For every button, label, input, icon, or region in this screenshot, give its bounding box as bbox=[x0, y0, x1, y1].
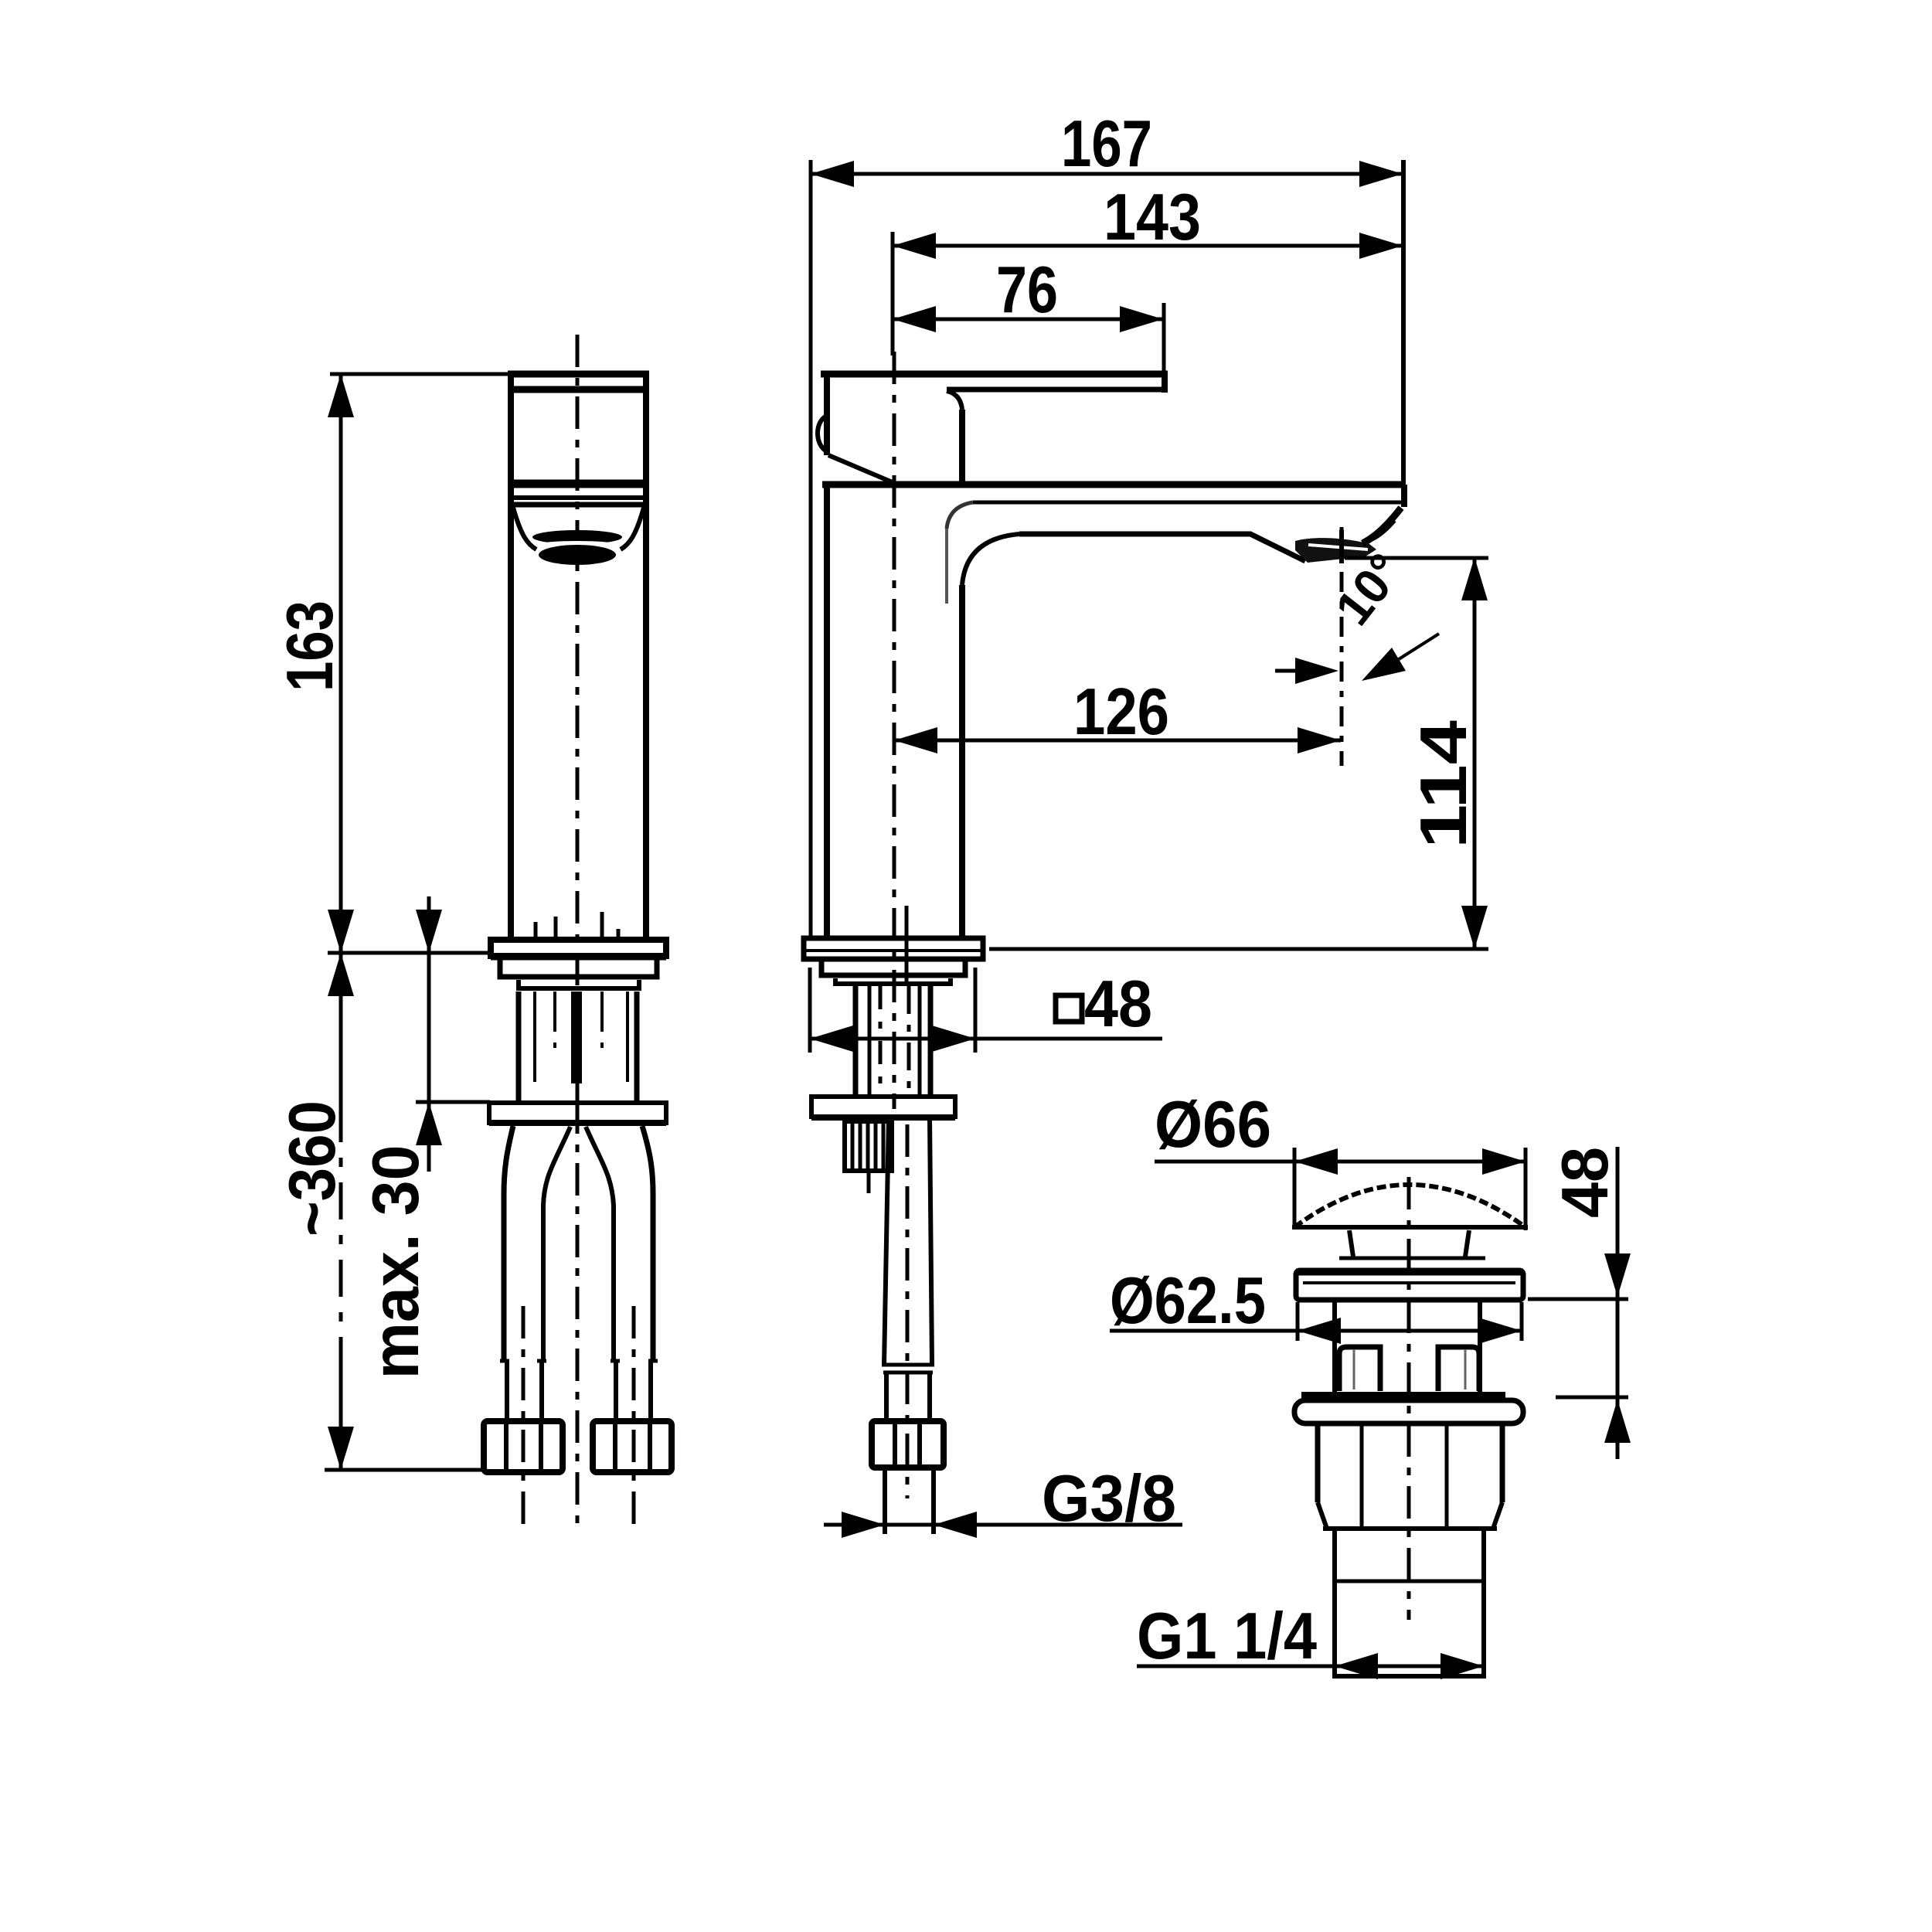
side view pipe nut facets bbox=[895, 1424, 920, 1464]
drain nut right edge bbox=[1500, 1423, 1505, 1502]
side view flange inner line bbox=[804, 949, 983, 952]
dim sq48 line bbox=[810, 1037, 1162, 1041]
drain cap rim left bbox=[1293, 1219, 1297, 1229]
side view deck top bbox=[822, 481, 1404, 488]
dim 163 top arrow bbox=[328, 374, 354, 417]
front view flange bottom band bbox=[491, 954, 666, 961]
drain valve centerline bbox=[1407, 1177, 1411, 1620]
front view flange tier3 bbox=[519, 980, 639, 988]
front view left hose shoulder ticks bbox=[500, 1359, 546, 1363]
dim O62.5 left arrow bbox=[1298, 1318, 1341, 1344]
side view shank line5 bbox=[918, 986, 922, 1097]
drain nut facet right bbox=[1445, 1425, 1449, 1526]
front view aerator white lens bbox=[543, 541, 612, 546]
drain tail right bbox=[1481, 1529, 1486, 1679]
drain lower flange bbox=[1294, 1400, 1523, 1423]
side view shank line2 bbox=[868, 986, 872, 1097]
drain waist left lug bbox=[1339, 1347, 1380, 1391]
front view right hose outer curve bbox=[642, 1126, 653, 1360]
side view body front edge bbox=[959, 585, 965, 938]
side view spout inner edge bbox=[945, 529, 948, 604]
svg-text:48: 48 bbox=[1549, 1147, 1622, 1218]
drain stem left bbox=[1349, 1230, 1353, 1257]
side view outlet aerator bbox=[1295, 538, 1376, 563]
dim 143 line bbox=[893, 244, 1403, 248]
drain nut chamfer right bbox=[1493, 1502, 1502, 1529]
dim 48 drain upper extension bbox=[1528, 1298, 1628, 1301]
drain upper flange inner line bbox=[1303, 1281, 1515, 1284]
svg-text:Ø66: Ø66 bbox=[1155, 1088, 1271, 1162]
drain waist left edge bbox=[1332, 1300, 1337, 1396]
front view body left edge bbox=[508, 374, 514, 941]
side view shank rod line bbox=[905, 906, 909, 986]
dim 167 left arrow bbox=[811, 161, 854, 187]
svg-text:G3/8: G3/8 bbox=[1042, 1462, 1176, 1536]
drain nut left edge bbox=[1315, 1423, 1321, 1502]
drain nut facet left bbox=[1360, 1425, 1364, 1526]
dim 143 left arrow bbox=[893, 233, 936, 259]
front view mounting stud left bbox=[553, 992, 556, 1048]
dim 10deg angled arrow bbox=[1362, 648, 1406, 681]
front view left hose centerline bbox=[522, 1306, 526, 1526]
svg-text:~360: ~360 bbox=[276, 1100, 349, 1236]
front view top edge bbox=[508, 371, 649, 378]
side view under nut hatched bbox=[845, 1121, 892, 1171]
front view right hose nut bbox=[593, 1421, 672, 1472]
front view washer bottom thick bbox=[489, 1120, 666, 1126]
svg-text:114: 114 bbox=[1407, 720, 1481, 849]
front view stud above flange right bbox=[600, 912, 604, 940]
svg-text:167: 167 bbox=[1061, 107, 1152, 181]
front view right hose nut facets bbox=[615, 1424, 650, 1469]
front view collar line 3 bbox=[511, 502, 646, 508]
drain waist right edge bbox=[1478, 1300, 1482, 1396]
dim 163/360 shared extension line bbox=[328, 951, 492, 955]
front view flange tier2 bbox=[500, 960, 657, 977]
front view collar line 2 bbox=[511, 495, 646, 500]
front view hose bore above flange right bbox=[617, 929, 621, 940]
dim O66 right extension bbox=[1524, 1148, 1528, 1230]
dim O62.5 left extension bbox=[1296, 1302, 1300, 1341]
dim G114 line between arrows bbox=[1335, 1665, 1484, 1668]
front view right hose centerline bbox=[632, 1306, 636, 1526]
dim O66 line bbox=[1155, 1160, 1526, 1164]
side view spout tip slope band bbox=[1362, 508, 1401, 543]
dim max30 bottom arrow bbox=[416, 1102, 442, 1145]
front view aerator cup left curve bbox=[513, 508, 536, 549]
dim O62.5 right arrow bbox=[1478, 1318, 1522, 1344]
dim 10deg arrow horizontal bbox=[1295, 658, 1338, 684]
side view tail pipe lower bbox=[886, 1372, 930, 1421]
drain stem base bbox=[1339, 1257, 1485, 1260]
drain tail relief line bbox=[1335, 1580, 1484, 1583]
dim sq48 square symbol bbox=[1056, 995, 1082, 1022]
side view spout underside bbox=[1019, 534, 1305, 561]
dim 163 extension top bbox=[330, 372, 510, 376]
dim max30 line bbox=[427, 896, 431, 1172]
dim max30 bottom extension bbox=[416, 1100, 490, 1104]
side view handle pivot bulge bbox=[818, 416, 827, 451]
dim 76 line bbox=[893, 318, 1163, 321]
dim G38 line bbox=[824, 1523, 1182, 1527]
dim 76 right extension line bbox=[1162, 303, 1166, 372]
side view tail pipe joint bbox=[882, 1365, 934, 1372]
dim 76 right arrow bbox=[1120, 306, 1163, 332]
dim O62.5 right extension bbox=[1520, 1302, 1524, 1341]
dim 126 right arrow bbox=[1298, 727, 1341, 753]
dim ~360 line middle dashed bbox=[339, 1105, 343, 1356]
front view pop-up rod bbox=[571, 992, 582, 1083]
side view pipe nut bbox=[872, 1421, 944, 1468]
dim G114 underline bbox=[1137, 1665, 1335, 1668]
side view flange tier2 bbox=[821, 959, 965, 975]
dim 126 line bbox=[894, 739, 1341, 743]
dim 143 left extension line bbox=[891, 232, 895, 355]
front view right hose inner curve bbox=[586, 1127, 614, 1360]
front view aerator dark ellipse bottom bbox=[539, 545, 616, 565]
outlet axis reference line bbox=[1340, 527, 1344, 766]
front view washer bbox=[489, 1103, 666, 1123]
side view handle underside diagonal bbox=[828, 455, 894, 483]
side view shank outer left bbox=[853, 986, 859, 1097]
dim 163 line bbox=[339, 374, 343, 953]
side view tail pipe upper bbox=[884, 1117, 932, 1365]
svg-text:143: 143 bbox=[1104, 181, 1201, 254]
side view spout top second line bbox=[973, 501, 1402, 505]
dim ~360 top arrow bbox=[328, 953, 354, 996]
drain cap dome bbox=[1294, 1185, 1526, 1227]
side view handle right end bbox=[1162, 372, 1168, 393]
dim 48 drain lower extension bbox=[1556, 1396, 1628, 1400]
dim 167 left extension line bbox=[809, 160, 813, 937]
side view shank line4 bbox=[907, 986, 911, 1097]
front view aerator dark ellipse top bbox=[532, 530, 622, 544]
dim max30 top arrow bbox=[416, 910, 442, 953]
dim sq48 right extension bbox=[974, 968, 978, 1053]
front view stud above flange left bbox=[554, 917, 558, 940]
drain upper flange bbox=[1296, 1270, 1523, 1300]
front view right hose shoulder ticks bbox=[611, 1359, 658, 1363]
dim 76 left arrow bbox=[893, 306, 936, 332]
dim O62.5 line bbox=[1110, 1329, 1522, 1333]
dim ~360 line lower bbox=[339, 1356, 343, 1470]
dim sq48 left arrow bbox=[810, 1026, 853, 1052]
drain waist lug inner lines bbox=[1354, 1350, 1465, 1389]
dim G114 left arrow bbox=[1335, 1653, 1378, 1679]
side view handle top bbox=[821, 371, 1168, 378]
side view handle underside bbox=[947, 387, 1165, 393]
side view stud tail bbox=[867, 1171, 871, 1193]
side view flange bbox=[804, 938, 983, 959]
front view body right edge bbox=[643, 374, 649, 941]
front view mounting stud right bbox=[600, 992, 604, 1048]
drain nut bottom bbox=[1323, 1526, 1497, 1531]
front view left hose inner curve bbox=[543, 1127, 570, 1360]
front view hose nipple right inner bbox=[626, 992, 629, 1082]
svg-text:G1 1/4: G1 1/4 bbox=[1137, 1600, 1317, 1673]
front view top cap line bbox=[511, 386, 646, 393]
side view shank outer right bbox=[928, 986, 934, 1097]
dim 167 right arrow bbox=[1359, 161, 1403, 187]
front view hose bore above flange left bbox=[534, 922, 538, 940]
side view handle neck front bbox=[959, 410, 965, 483]
front view right hose collar bbox=[616, 1361, 651, 1421]
svg-text:126: 126 bbox=[1073, 675, 1169, 749]
drain cap bottom bbox=[1292, 1225, 1528, 1230]
dim ~360 bottom extension bbox=[325, 1468, 484, 1472]
dim sq48 right arrow bbox=[932, 1026, 975, 1052]
dim ~360 line upper bbox=[339, 953, 343, 1105]
drain nut chamfer left bbox=[1318, 1502, 1327, 1529]
front view left hose nut bbox=[484, 1421, 563, 1472]
front view left hose nut facets bbox=[506, 1424, 541, 1469]
svg-text:163: 163 bbox=[274, 600, 347, 692]
drain cap rim right bbox=[1524, 1219, 1528, 1229]
dim sq48 left extension bbox=[808, 968, 812, 1053]
side view centerline upper bbox=[893, 352, 896, 1109]
dim 126 left arrow bbox=[894, 727, 937, 753]
dim 48 drain bottom arrow bbox=[1604, 1400, 1631, 1443]
dim G114 right arrow bbox=[1440, 1653, 1484, 1679]
side view spout underside left arc bbox=[962, 534, 1019, 585]
dim O66 right arrow bbox=[1482, 1148, 1526, 1175]
front view flange bbox=[491, 940, 666, 956]
side view outlet white streak bbox=[1308, 545, 1368, 549]
side view washer bbox=[811, 1097, 955, 1117]
side view flange tier3 bbox=[835, 978, 951, 984]
drain tail left bbox=[1332, 1529, 1337, 1679]
svg-text:76: 76 bbox=[996, 253, 1058, 327]
outlet axis solid tick bbox=[1339, 530, 1344, 563]
dim 167 right extension line bbox=[1401, 160, 1406, 485]
drain stem right bbox=[1465, 1230, 1469, 1257]
side view spout top left arc bbox=[947, 502, 973, 529]
dim 114 bottom arrow bbox=[1461, 906, 1488, 949]
dim 114 top arrow bbox=[1461, 557, 1488, 600]
dim 10deg leader bbox=[1399, 634, 1439, 659]
front view aerator cup right curve bbox=[621, 508, 644, 549]
front view hose nipple left inner bbox=[533, 992, 536, 1082]
dim 114 line bbox=[1473, 557, 1477, 949]
dim 114 top extension bbox=[1345, 556, 1488, 560]
dim 167 line bbox=[811, 172, 1403, 176]
svg-text:Ø62.5: Ø62.5 bbox=[1110, 1264, 1266, 1338]
dim 48 drain top arrow bbox=[1604, 1253, 1631, 1297]
dim O66 left extension bbox=[1293, 1148, 1297, 1223]
front view hose nipple left outer bbox=[516, 992, 522, 1103]
drain washer line bbox=[1301, 1392, 1505, 1400]
side view handle left end bbox=[824, 372, 830, 455]
dim O66 left arrow bbox=[1294, 1148, 1338, 1175]
drain waist right lug bbox=[1438, 1347, 1479, 1391]
dim G38 right arrow bbox=[934, 1512, 977, 1538]
dim ~360 bottom arrow bbox=[328, 1427, 354, 1470]
front view centerline bbox=[576, 335, 580, 1101]
dim 10deg arrow tail bbox=[1275, 669, 1297, 673]
front view left hose collar bbox=[507, 1361, 542, 1421]
drain tail bottom bbox=[1335, 1674, 1484, 1679]
dim 143 right arrow bbox=[1359, 233, 1403, 259]
front view left hose outer curve bbox=[504, 1126, 513, 1360]
side view pipe end bbox=[885, 1468, 934, 1534]
dim 48 drain line bbox=[1616, 1147, 1620, 1459]
side view handle neck fillet bbox=[947, 391, 962, 410]
front view hose nipple right outer bbox=[634, 992, 640, 1103]
side view spout tip face bbox=[1401, 485, 1407, 507]
side view body left edge bbox=[824, 485, 830, 938]
side view washer bottom thick bbox=[811, 1114, 955, 1121]
dim 114 bottom extension bbox=[989, 947, 1488, 951]
svg-text:max. 30: max. 30 bbox=[359, 1145, 433, 1379]
svg-text:48: 48 bbox=[1084, 968, 1152, 1041]
side view spout tip slope bbox=[1369, 521, 1395, 541]
dim 163 bottom arrow bbox=[328, 910, 354, 953]
dim G38 left arrow bbox=[842, 1512, 885, 1538]
front view center rod dashline bbox=[576, 1101, 580, 1526]
front view collar thick band bbox=[509, 480, 648, 488]
side view pipe centerline bbox=[906, 1124, 910, 1498]
side view shank line3 dashed bbox=[879, 986, 883, 1097]
